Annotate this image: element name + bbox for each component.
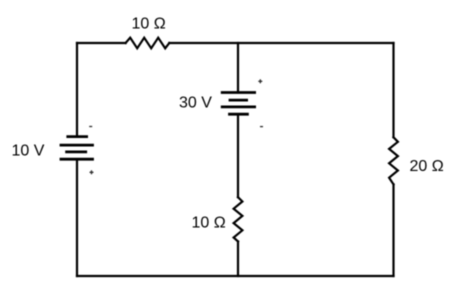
svg-text:30 V: 30 V xyxy=(179,95,212,112)
wire left-top (corner to battery V1) xyxy=(76,43,78,136)
svg-text:10 Ω: 10 Ω xyxy=(192,215,226,232)
resistor R1 10 ohm (top horizontal zigzag) xyxy=(126,38,170,49)
wire left-bottom (battery V1 to bottom corner) xyxy=(76,159,78,276)
battery V2 minus sign xyxy=(260,126,263,128)
wire middle-bottom (resistor R2 to bottom wire) xyxy=(237,242,239,277)
svg-text:10 Ω: 10 Ω xyxy=(132,16,166,33)
battery V1 plus sign xyxy=(90,170,94,174)
wire top-left segment xyxy=(77,42,126,44)
battery V1 10 V plates xyxy=(61,137,93,160)
resistor R2 10 ohm (middle vertical zigzag) xyxy=(234,197,243,241)
battery V2 plus sign xyxy=(258,79,262,83)
wire right-bottom (resistor R3 to bottom corner) xyxy=(392,184,394,276)
svg-text:20 Ω: 20 Ω xyxy=(410,158,444,175)
wire right-top (corner to resistor R3) xyxy=(392,43,394,137)
wire top-right segment xyxy=(169,42,393,44)
resistor R3 20 ohm (right vertical zigzag) xyxy=(389,137,398,184)
wire middle (battery V2 to resistor R2) xyxy=(237,114,239,197)
wire bottom xyxy=(77,275,394,277)
wire middle-top (top wire to battery V2) xyxy=(237,43,239,93)
battery V2 30 V plates xyxy=(222,93,254,115)
svg-text:10 V: 10 V xyxy=(12,143,45,160)
battery V1 minus sign xyxy=(89,126,92,128)
